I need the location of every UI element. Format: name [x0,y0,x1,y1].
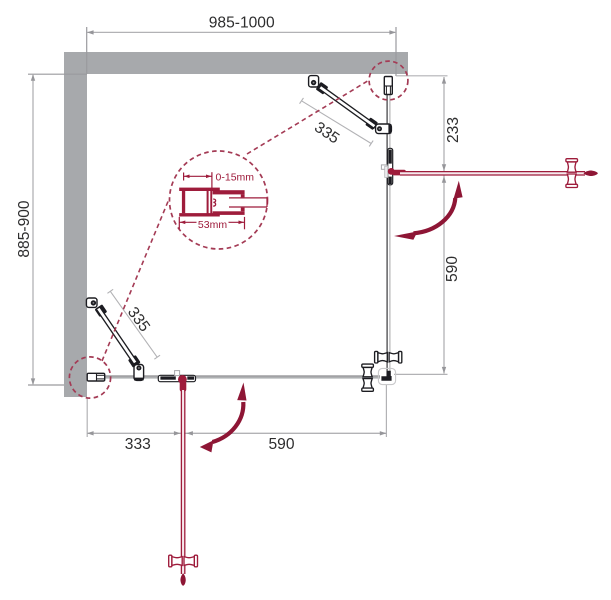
svg-text:590: 590 [268,436,294,453]
svg-text:333: 333 [125,436,151,453]
svg-text:0-15mm: 0-15mm [216,172,255,184]
svg-text:53mm: 53mm [198,219,227,231]
svg-text:233: 233 [445,117,462,143]
svg-text:985-1000: 985-1000 [209,15,275,32]
svg-text:590: 590 [444,256,461,282]
svg-text:885-900: 885-900 [16,200,33,258]
